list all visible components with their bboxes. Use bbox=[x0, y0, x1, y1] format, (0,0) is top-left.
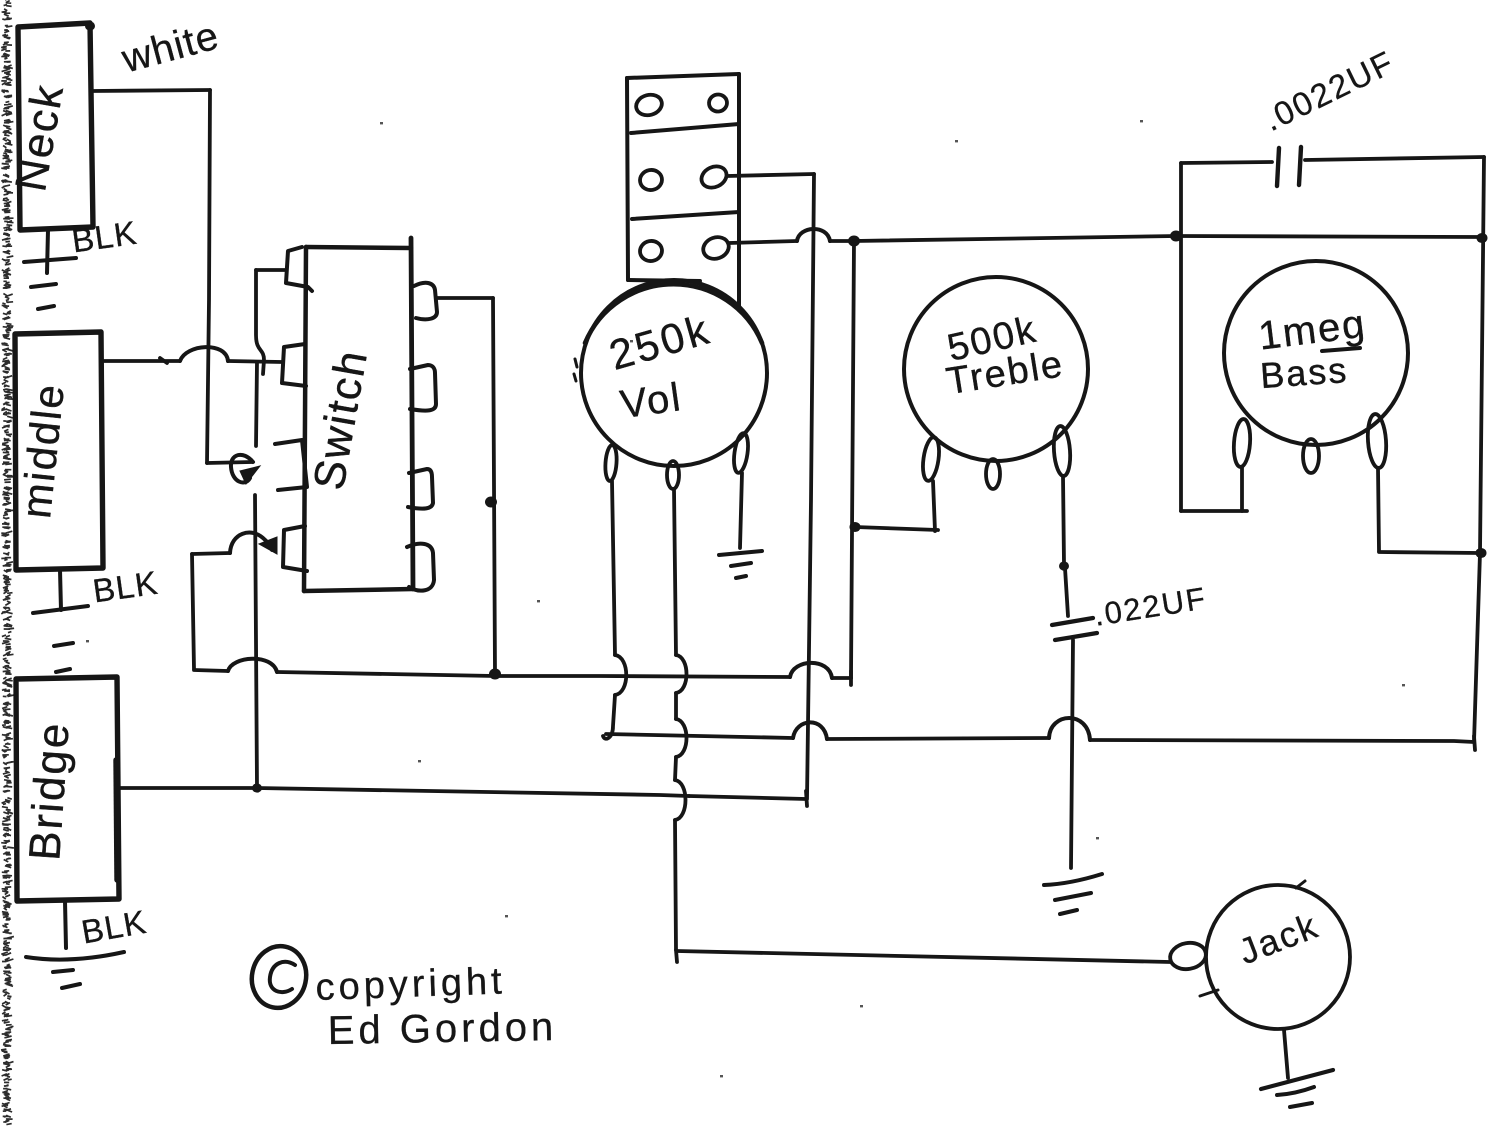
svg-text:Vol: Vol bbox=[618, 375, 685, 427]
svg-text:Bass: Bass bbox=[1259, 349, 1350, 396]
svg-text:Ed Gordon: Ed Gordon bbox=[327, 1005, 557, 1053]
svg-text:Bridge: Bridge bbox=[20, 720, 79, 862]
svg-text:copyright: copyright bbox=[315, 960, 507, 1009]
